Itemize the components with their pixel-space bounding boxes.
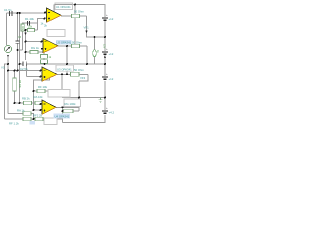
battery V1 <box>102 13 108 20</box>
wire P1 top lead <box>94 37 96 50</box>
svg-text:V0: V0 <box>1 65 5 69</box>
wire top bus to battery1 <box>54 5 105 18</box>
wire op2 out drop <box>86 46 88 64</box>
svg-text:+12: +12 <box>109 17 114 21</box>
svg-text:RG 1k: RG 1k <box>31 46 40 50</box>
wire battery3 bottom <box>104 81 106 110</box>
AC source VG1 <box>4 45 11 57</box>
wire bus left nest <box>5 64 9 119</box>
svg-text:VF1: VF1 <box>84 26 90 30</box>
svg-text:U3 OPA341: U3 OPA341 <box>57 67 72 71</box>
wire op2 +in riser <box>43 49 45 52</box>
wire op4 +in row <box>34 109 43 111</box>
svg-text:+: + <box>106 72 108 76</box>
pin dot U3 plus <box>40 76 42 78</box>
wire gnd row <box>62 97 105 99</box>
wire R4 top lead <box>23 23 25 24</box>
node dot battery bus y37 <box>104 36 106 38</box>
svg-text:VF3: VF3 <box>80 76 86 80</box>
arrow on op1 out drop <box>85 31 87 34</box>
label box U2 <box>47 30 65 37</box>
svg-text:RF 10k: RF 10k <box>38 85 48 89</box>
wire row3 <box>5 118 63 120</box>
wire R1C row <box>24 22 38 24</box>
wire inter-resistor vertical x75 <box>74 18 76 46</box>
wire C2 bus row right <box>27 63 106 65</box>
wire bottom bus <box>63 115 106 123</box>
resistor R2 <box>72 14 80 17</box>
wire source bottom vertical <box>7 55 9 114</box>
wire gnd row left riser <box>61 91 63 98</box>
node dots row y70.5 <box>7 70 42 72</box>
svg-text:U1 OPA341: U1 OPA341 <box>56 5 71 9</box>
wire battery4 top <box>104 98 106 111</box>
label box RG3 <box>64 99 81 107</box>
svg-text:+4.2: +4.2 <box>109 111 115 115</box>
battery V2 <box>102 47 108 54</box>
node dot left nest <box>7 63 9 65</box>
capacitor C2 <box>23 61 26 66</box>
svg-text:+12: +12 <box>109 52 114 56</box>
wire op3 out jog <box>79 74 88 81</box>
wire link y50 <box>18 49 23 51</box>
resistor RF <box>37 89 45 92</box>
ground <box>99 98 103 103</box>
node dots row3 <box>33 118 35 120</box>
node dot gnd row right <box>104 97 106 99</box>
pin dots U4 <box>33 109 42 111</box>
battery V3 <box>102 72 108 79</box>
wire R4 bottom lead <box>22 31 24 50</box>
resistor RG2 <box>30 50 38 53</box>
wire vertical x37.5 <box>37 23 39 30</box>
node dots RF row <box>33 90 64 92</box>
svg-text:RG 100k: RG 100k <box>65 102 77 106</box>
wire C2 bus row left <box>20 63 23 65</box>
node dots bus y64 <box>19 63 107 65</box>
wire battery1 feed resistor <box>74 5 76 14</box>
wire C1 left lead down to source <box>6 13 8 45</box>
wire vertical x19.5 <box>19 13 21 64</box>
resistor P1 ellipse <box>93 50 97 57</box>
label box U3 <box>56 65 74 71</box>
label U2 selected <box>56 40 72 45</box>
node dots op3 out row <box>61 73 68 75</box>
wire battery1 bottom <box>104 21 106 51</box>
resistor row3a <box>23 117 31 120</box>
resistor R7 <box>71 72 80 76</box>
node dot op2 out <box>66 45 68 47</box>
wire op1 -in row <box>7 12 47 14</box>
wire R5 top lead <box>14 71 16 79</box>
wire op2 -in row <box>26 41 44 43</box>
label box A <box>48 90 70 98</box>
wire RG100k row <box>63 110 80 112</box>
node dot top bus <box>74 4 76 6</box>
label box U1 <box>55 3 73 10</box>
node dots RB row <box>14 102 42 105</box>
pin glyphs U3 <box>44 71 46 78</box>
node dot link y50 <box>17 49 19 51</box>
wire op4 out drop <box>62 107 64 122</box>
wire between chain boxes <box>43 58 45 59</box>
capacitor C1 <box>10 11 12 16</box>
capacitor C4 inline <box>28 21 30 26</box>
pin glyphs U4 <box>44 104 46 111</box>
wire R3 row <box>26 29 38 31</box>
node dot battery2 bottom <box>104 56 106 58</box>
wire op3 -in row <box>8 70 42 72</box>
wire top bus overlay <box>55 4 73 6</box>
svg-text:RF 1.2k: RF 1.2k <box>9 122 19 126</box>
svg-text:RA 10k: RA 10k <box>34 95 44 99</box>
resistor chain box2 <box>41 60 48 64</box>
wire op1 out drop <box>87 16 106 37</box>
resistor R5 vertical <box>13 78 16 91</box>
wire vertical x25.5 <box>25 30 27 60</box>
node dot gnd row <box>78 97 80 99</box>
svg-text:RB 2k: RB 2k <box>22 96 30 100</box>
wire op3 out row <box>57 73 88 75</box>
node junction dots top row <box>17 12 21 14</box>
resistor R3 <box>28 28 35 31</box>
wire vertical x17.5 lower <box>17 44 19 71</box>
wire op3 fb drop <box>61 74 63 91</box>
wire op3 +in bend <box>26 64 28 77</box>
wire RF row <box>34 90 63 92</box>
svg-text:+12: +12 <box>109 77 114 81</box>
label RF1.2k highlight <box>30 121 36 124</box>
wire op1 out row <box>61 15 87 17</box>
svg-text:50 Ohm: 50 Ohm <box>74 10 85 14</box>
wire vertical x17.5 upper <box>17 13 19 41</box>
battery V4 <box>102 106 108 113</box>
pin glyphs U2 <box>45 42 47 50</box>
wire op2 out row <box>58 45 87 47</box>
svg-text:RF2 2k: RF2 2k <box>33 113 43 117</box>
wire op1 power stub <box>53 5 55 12</box>
resistor row3b <box>35 117 43 120</box>
pin dots U2 <box>41 41 44 50</box>
wire P1 bottom lead <box>94 57 96 65</box>
resistor R4 vertical <box>21 24 24 31</box>
resistor RB <box>24 101 32 104</box>
label box RF2 <box>44 118 57 125</box>
arrow on x25.5 wire <box>24 33 26 36</box>
wire vertical x79 drop <box>78 81 80 111</box>
wire RB row <box>15 103 47 104</box>
pin dots U1 <box>44 12 47 20</box>
resistor row2 <box>23 112 31 115</box>
wire op4 out row <box>56 106 79 108</box>
wire x33.5 drop <box>33 91 35 110</box>
svg-text:U4 OPA341: U4 OPA341 <box>55 114 70 118</box>
wire op2 power drop <box>43 52 45 55</box>
wire R5 bottom lead <box>14 91 16 104</box>
svg-text:+: + <box>106 106 108 110</box>
capacitor C3 vertical on x17.5 <box>15 41 19 43</box>
resistor RA <box>35 101 43 104</box>
wire RG2 row <box>26 51 45 53</box>
wire op2 out riser down to bus <box>66 46 68 74</box>
op-amp U1 <box>47 8 62 22</box>
op-amp U3 <box>42 67 57 81</box>
svg-text:C2 5n: C2 5n <box>20 67 28 71</box>
svg-text:R1 40k: R1 40k <box>25 17 34 21</box>
svg-text:U2 OPA341: U2 OPA341 <box>57 41 72 45</box>
svg-text:C1 5n: C1 5n <box>4 8 12 12</box>
pin glyphs U1 <box>48 13 50 20</box>
resistor RG3 <box>63 109 73 112</box>
wire battery2 bottom <box>104 55 106 76</box>
wire vertical x19.5 lower <box>19 64 21 104</box>
svg-text:12V: 12V <box>103 44 106 49</box>
wire op3 power stub <box>34 78 50 92</box>
label U4 selected <box>54 113 71 118</box>
resistor R6 <box>72 44 80 47</box>
node dots x25.5 <box>25 41 27 54</box>
resistor chain box1 <box>41 55 48 59</box>
svg-text:50 Ohm: 50 Ohm <box>74 68 85 72</box>
node dot R3 left <box>25 29 27 31</box>
node dots out row U4 <box>62 106 64 112</box>
wire op1 +in bend <box>38 19 45 24</box>
node dot P1 top <box>94 36 96 38</box>
op-amp U4 <box>42 100 56 114</box>
svg-text:R5 10k: R5 10k <box>18 80 21 89</box>
wire row2 left corner <box>8 113 23 115</box>
wire row2 to x33.5 <box>31 114 34 120</box>
op-amp U2 <box>43 39 58 53</box>
